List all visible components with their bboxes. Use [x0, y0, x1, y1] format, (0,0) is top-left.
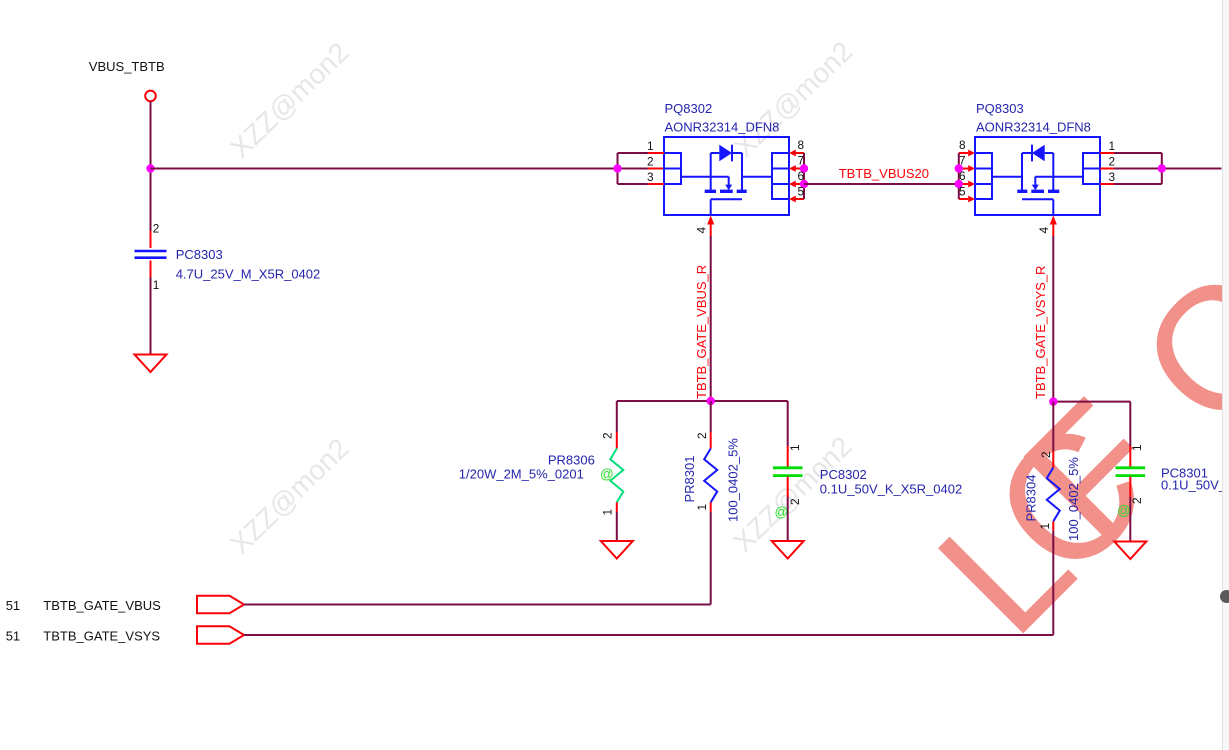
svg-text:2: 2 [153, 222, 160, 236]
svg-text:@: @ [600, 466, 614, 481]
svg-text:0.1U_50V_K_X5R_0402: 0.1U_50V_K_X5R_0402 [820, 482, 962, 497]
svg-text:3: 3 [647, 170, 654, 184]
svg-text:AONR32314_DFN8: AONR32314_DFN8 [976, 120, 1091, 135]
svg-text:2: 2 [1130, 497, 1144, 504]
svg-text:100_0402_5%: 100_0402_5% [1066, 457, 1081, 541]
svg-text:1: 1 [1130, 444, 1144, 451]
svg-text:PR8306: PR8306 [548, 453, 595, 468]
svg-text:5: 5 [959, 185, 966, 199]
svg-text:6: 6 [798, 169, 805, 183]
svg-text:1: 1 [788, 444, 802, 451]
svg-text:8: 8 [959, 138, 966, 152]
svg-text:2: 2 [788, 498, 802, 505]
svg-text:PQ8302: PQ8302 [665, 101, 713, 116]
svg-text:TBTB_GATE_VBUS: TBTB_GATE_VBUS [43, 598, 161, 613]
svg-text:2: 2 [695, 432, 709, 439]
svg-text:4: 4 [1037, 227, 1051, 234]
svg-text:1: 1 [647, 139, 654, 153]
svg-text:6: 6 [959, 169, 966, 183]
svg-text:1: 1 [153, 278, 160, 292]
svg-text:51: 51 [6, 629, 20, 644]
svg-text:AONR32314_DFN8: AONR32314_DFN8 [665, 120, 780, 135]
svg-text:VBUS_TBTB: VBUS_TBTB [89, 59, 165, 74]
svg-text:1: 1 [601, 509, 615, 516]
svg-text:PQ8303: PQ8303 [976, 101, 1024, 116]
svg-text:2: 2 [601, 432, 615, 439]
svg-text:@: @ [775, 505, 789, 520]
svg-text:4.7U_25V_M_X5R_0402: 4.7U_25V_M_X5R_0402 [176, 267, 321, 282]
svg-text:4: 4 [695, 227, 709, 234]
svg-text:7: 7 [798, 154, 805, 168]
svg-text:5: 5 [798, 185, 805, 199]
svg-text:@: @ [1117, 503, 1131, 518]
svg-text:8: 8 [798, 138, 805, 152]
svg-text:TBTB_VBUS20: TBTB_VBUS20 [839, 166, 929, 181]
svg-text:100_0402_5%: 100_0402_5% [726, 438, 741, 522]
svg-text:7: 7 [959, 154, 966, 168]
svg-text:PR8301: PR8301 [682, 456, 697, 503]
svg-text:TBTB_GATE_VBUS_R: TBTB_GATE_VBUS_R [694, 265, 709, 399]
svg-text:0.1U_50V_K_X5R_0402: 0.1U_50V_K_X5R_0402 [1161, 478, 1229, 493]
svg-text:1: 1 [1038, 523, 1052, 530]
svg-text:TBTB_GATE_VSYS_R: TBTB_GATE_VSYS_R [1033, 266, 1048, 399]
svg-text:PR8304: PR8304 [1024, 475, 1039, 522]
svg-text:1: 1 [695, 504, 709, 511]
svg-text:2: 2 [1109, 155, 1116, 169]
svg-text:TBTB_GATE_VSYS: TBTB_GATE_VSYS [43, 629, 160, 644]
svg-text:3: 3 [1109, 170, 1116, 184]
svg-text:PC8302: PC8302 [820, 467, 867, 482]
svg-text:1/20W_2M_5%_0201: 1/20W_2M_5%_0201 [459, 466, 584, 481]
svg-text:1: 1 [1109, 139, 1116, 153]
svg-text:2: 2 [1039, 451, 1053, 458]
svg-text:PC8303: PC8303 [176, 247, 223, 262]
svg-text:2: 2 [647, 155, 654, 169]
svg-text:51: 51 [6, 598, 20, 613]
